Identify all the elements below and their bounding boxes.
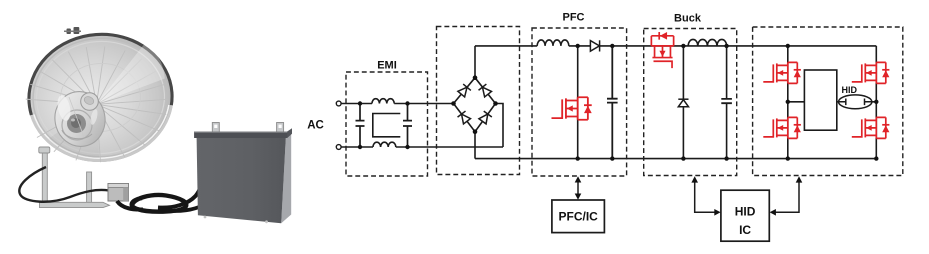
- wire inverter right leg: [875, 46, 877, 159]
- svg-text:HID: HID: [842, 85, 858, 95]
- wire DC+ top bus: [475, 45, 537, 47]
- svg-text:PFC/IC: PFC/IC: [559, 209, 599, 223]
- transistor Buck MOSFET Q2 (series, rotated): [651, 32, 673, 68]
- wire lamp branch right: [837, 101, 877, 103]
- wire arrow Buck to HID IC (double headed L): [691, 176, 720, 215]
- node bridge right: [493, 101, 498, 106]
- node PFC drain: [576, 44, 580, 48]
- diode bridge D2 (right AC to top): [479, 84, 492, 97]
- svg-text:HID: HID: [735, 205, 756, 219]
- wire lamp branch left: [788, 101, 805, 103]
- node bridge top: [473, 75, 478, 80]
- wire bridge diamond edges: [454, 78, 496, 132]
- inductor PFC boost L: [537, 40, 569, 46]
- svg-text:AC: AC: [307, 120, 324, 132]
- svg-text:IC: IC: [739, 223, 751, 237]
- node PFC source: [576, 156, 580, 160]
- node inverter right bottom: [874, 156, 878, 160]
- node bridge left: [451, 101, 456, 106]
- diode Buck freewheel (cathode up): [678, 100, 688, 107]
- photo: small junction box on cable: [108, 184, 129, 202]
- wire top bus PFC: [569, 45, 877, 47]
- PFC block dashed box: [532, 28, 627, 176]
- wire EMI bottom out: [396, 146, 503, 148]
- node buck diode bottom: [681, 156, 685, 160]
- photo: floodlight yoke stand: [39, 147, 110, 208]
- lamp HID burner: [839, 95, 872, 109]
- wire bridge bottom vertex to DC- bus: [474, 132, 476, 159]
- diode bridge D4 (bottom to right AC): [478, 111, 491, 124]
- node buck cap top: [724, 44, 728, 48]
- transistor inverter Q4 (bottom-left): [763, 117, 801, 138]
- diode bridge D3 (bottom to left AC): [458, 111, 471, 124]
- svg-text:EMI: EMI: [377, 60, 397, 72]
- node bridge bottom: [473, 129, 478, 134]
- photo: thin cable from lamp to small junction box: [19, 167, 109, 202]
- HID controller box: [721, 190, 769, 241]
- node EMI top-left: [358, 101, 362, 105]
- node EMI bottom-right: [405, 145, 409, 149]
- EMI block dashed box: [346, 72, 428, 176]
- node inverter left mid: [786, 100, 790, 104]
- svg-text:PFC: PFC: [563, 11, 585, 23]
- node buck cap bottom: [724, 156, 728, 160]
- wire bridge right vertex to AC bottom: [496, 104, 504, 148]
- node EMI bottom-left: [358, 145, 362, 149]
- capacitor EMI right (X-cap): [403, 104, 412, 148]
- wire DC- bottom bus: [475, 158, 876, 160]
- wire arrow PFC to PFC-IC (double headed): [575, 176, 582, 200]
- node buck diode top: [681, 44, 685, 48]
- terminal AC neutral (bottom): [336, 145, 341, 150]
- terminal AC line (top): [336, 101, 341, 106]
- node inverter left top: [786, 44, 790, 48]
- full-bridge inverter dashed box: [753, 27, 903, 176]
- photo: ballast box: [194, 123, 292, 224]
- wire arrow inverter to HID IC (double headed L): [770, 176, 803, 215]
- wire buck diode leg: [682, 46, 684, 159]
- transistor inverter Q5 (top-right): [852, 62, 890, 83]
- wire AC top to EMI: [341, 103, 372, 105]
- choke core symbol (open rectangle): [373, 114, 401, 137]
- Buck block dashed box: [644, 29, 737, 176]
- ignitor block rectangle: [804, 70, 836, 130]
- wire buck cap leg: [726, 46, 728, 159]
- transistor inverter Q3 (top-left): [763, 62, 801, 83]
- photo: reflector radial facets: [22, 40, 171, 167]
- wire AC bottom to EMI: [341, 146, 373, 148]
- photo: thick mains cable coils: [117, 174, 202, 212]
- node PFC cap bottom: [610, 156, 614, 160]
- transistor PFC MOSFET Q1: [551, 97, 591, 119]
- wire inverter left leg: [787, 46, 789, 159]
- capacitor EMI left (X-cap): [356, 104, 365, 148]
- diode bridge D1 (lower-left AC to top): [457, 84, 470, 97]
- transistor inverter Q6 (bottom-right): [852, 117, 890, 138]
- inductor Buck L: [688, 39, 726, 45]
- photo: lamp bulb: [51, 88, 110, 151]
- capacitor PFC bus C: [607, 46, 618, 159]
- node inverter left bottom: [786, 156, 790, 160]
- photo: reflector dish: [24, 29, 177, 166]
- inductor EMI bottom (common-mode choke winding 2): [373, 142, 396, 147]
- PFC controller box: [552, 200, 605, 233]
- wire PFC switch leg: [577, 46, 579, 159]
- wire bridge top vertex to DC+ bus: [474, 46, 476, 78]
- photo: top clamp on reflector: [64, 27, 81, 34]
- wire EMI top out: [394, 103, 453, 105]
- node EMI top-right: [405, 101, 409, 105]
- bridge rectifier dashed box: [437, 27, 520, 175]
- inductor EMI top (common-mode choke winding 1): [372, 99, 394, 104]
- capacitor Buck output C: [721, 99, 732, 103]
- svg-text:Buck: Buck: [674, 12, 702, 24]
- node inverter right mid: [874, 100, 878, 104]
- node PFC cap top: [610, 44, 614, 48]
- diode PFC boost (pointing right): [590, 41, 599, 52]
